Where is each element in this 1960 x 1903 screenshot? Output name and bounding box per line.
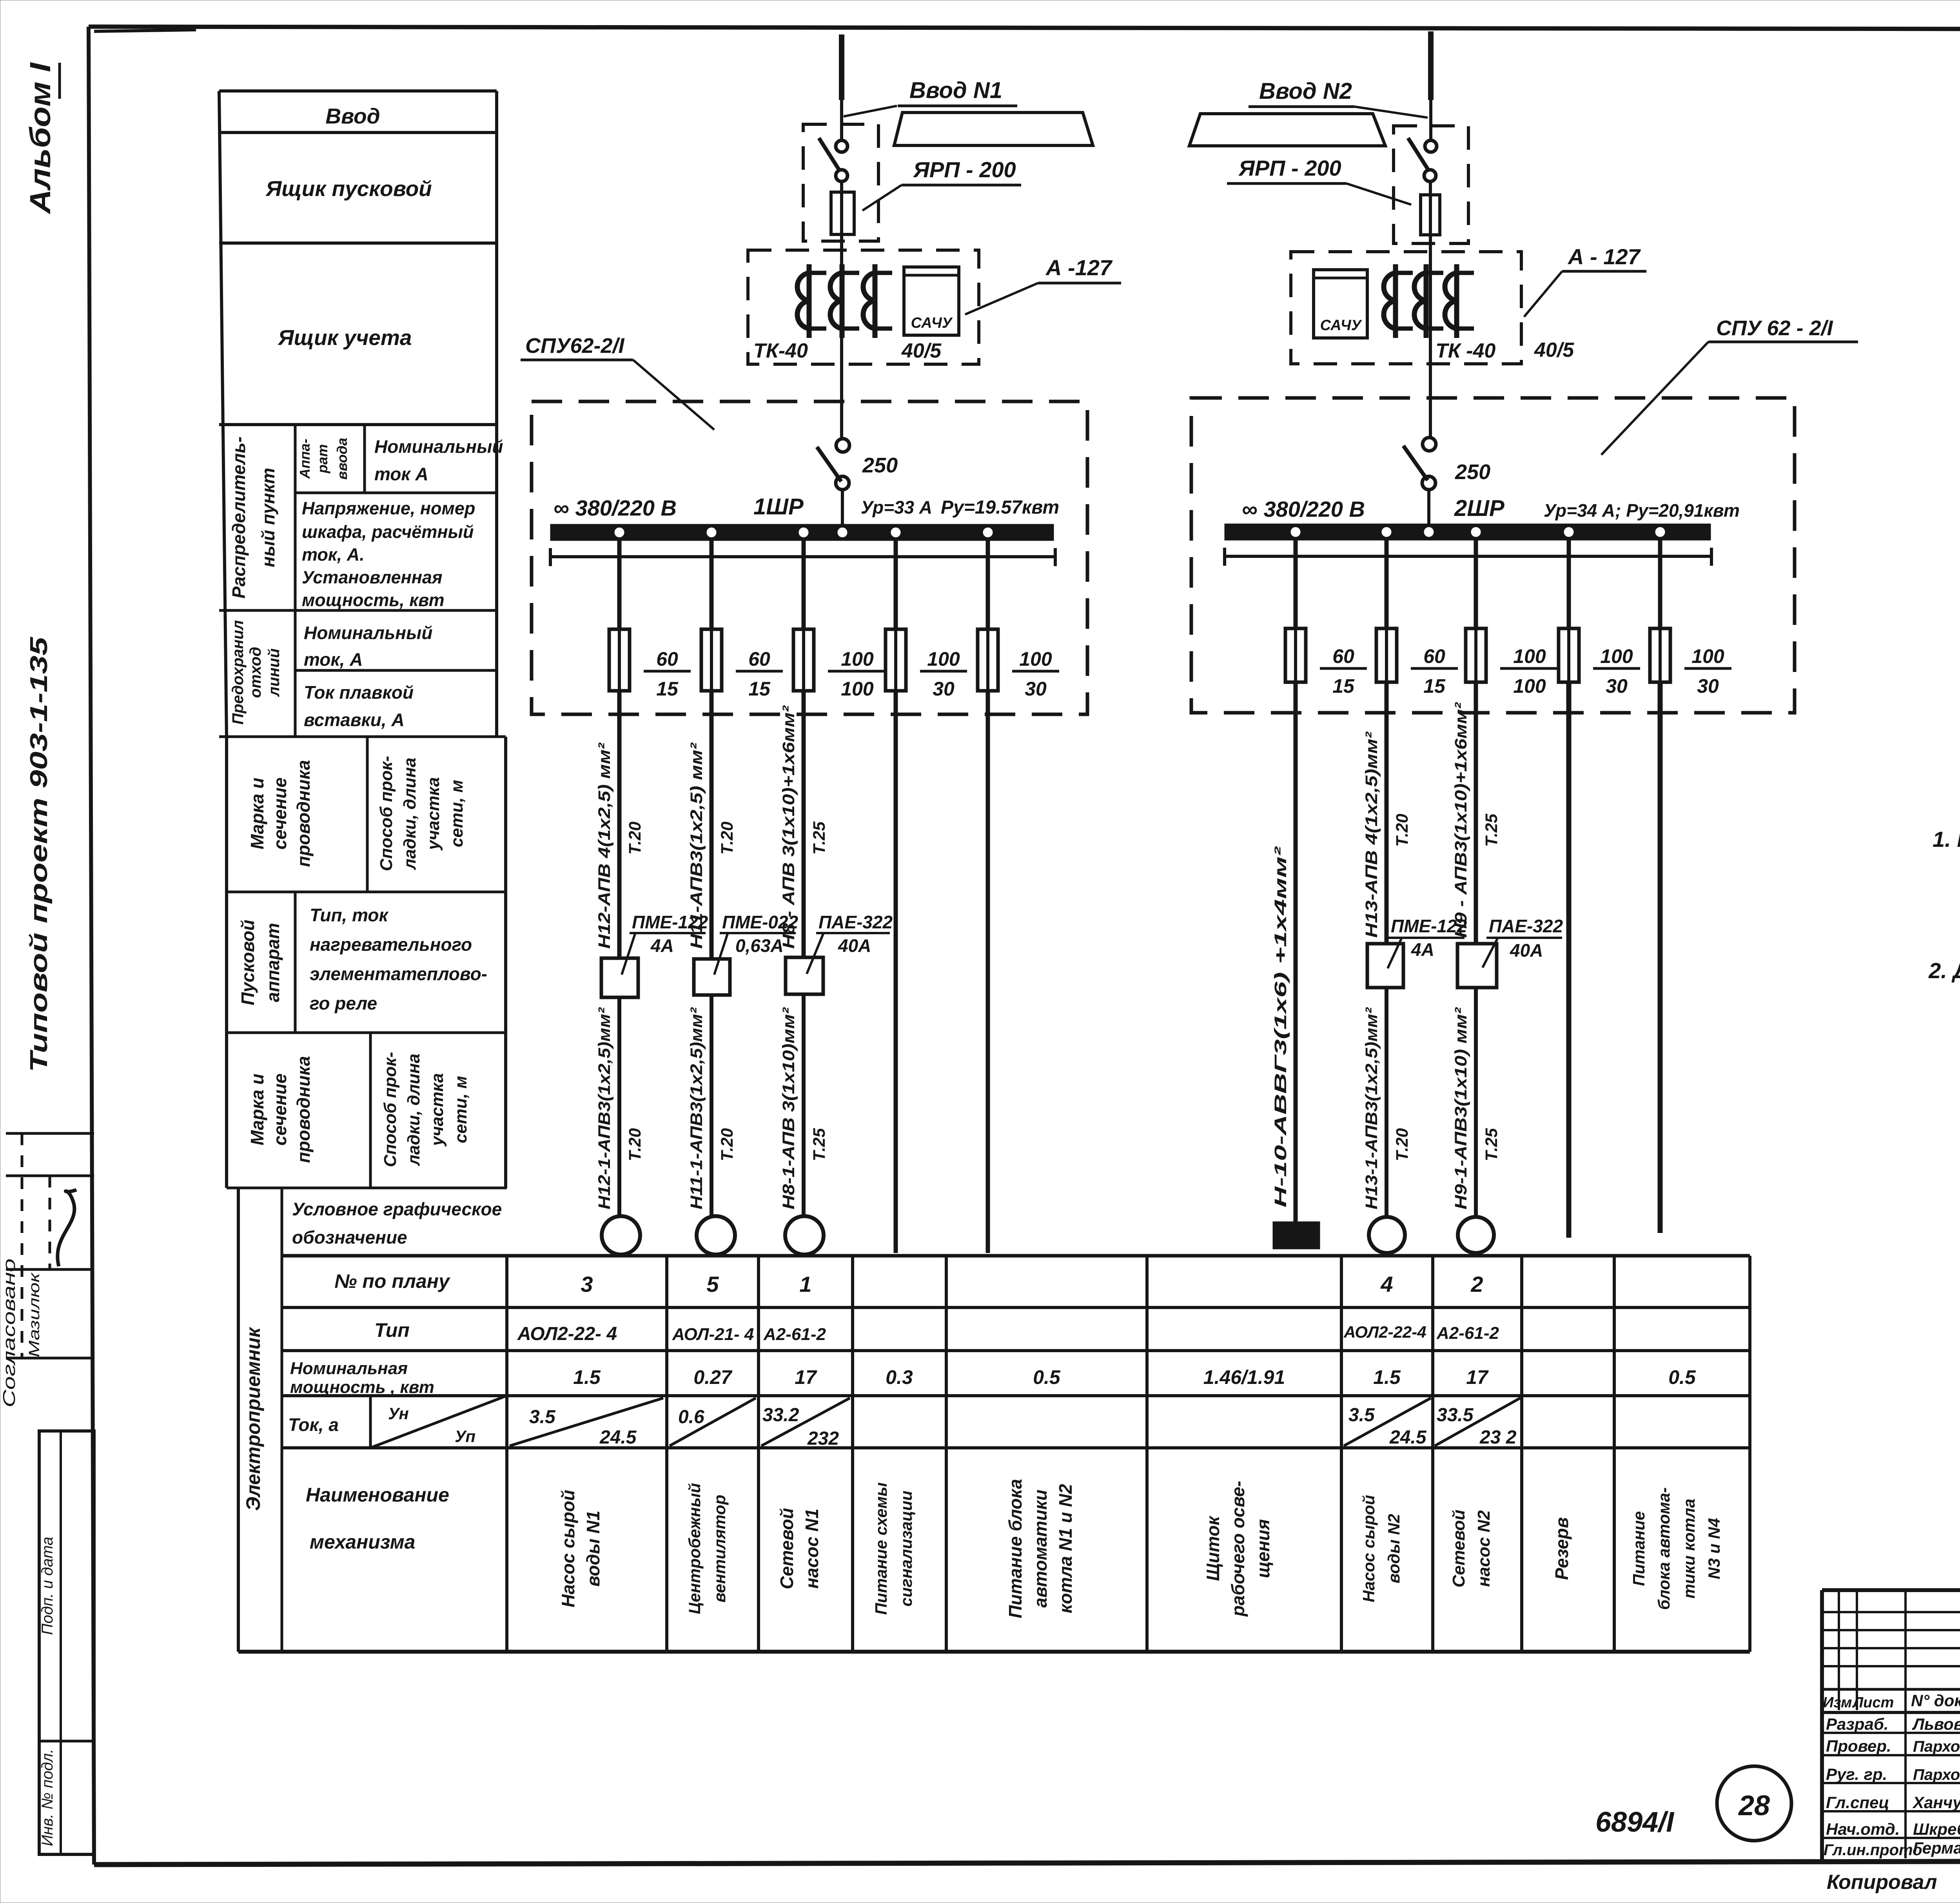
svg-text:Ввод: Ввод xyxy=(325,104,380,128)
svg-text:Подп. и дата: Подп. и дата xyxy=(39,1537,56,1635)
fuse 1ШР group 1 xyxy=(609,629,630,691)
svg-text:ввода: ввода xyxy=(334,438,350,480)
current transformer ТК-40 N2 phase A xyxy=(1384,264,1413,338)
wire 2ШР group 2 starter to motor xyxy=(1385,988,1388,1218)
svg-text:40А: 40А xyxy=(1510,940,1543,961)
label А-127 N2 xyxy=(1524,244,1646,317)
label А-127 N1 xyxy=(965,255,1121,314)
svg-text:Насос сырой: Насос сырой xyxy=(558,1490,578,1607)
svg-text:Н-10-АВВГ3(1х6) +1х4мм²: Н-10-АВВГ3(1х6) +1х4мм² xyxy=(1271,846,1290,1208)
busbar rail 2ШР xyxy=(1225,548,1711,566)
svg-text:24.5: 24.5 xyxy=(599,1427,637,1448)
svg-text:Типовой проект 903-1-135: Типовой проект 903-1-135 xyxy=(25,636,53,1072)
title block: revision header row xyxy=(1823,1691,1960,1711)
svg-text:Уп: Уп xyxy=(455,1427,475,1445)
flag Ввод N1 xyxy=(894,113,1093,145)
wire through А-127 N1 xyxy=(840,250,843,439)
svg-text:АОЛ2-22-4: АОЛ2-22-4 xyxy=(1343,1323,1426,1341)
svg-text:3.5: 3.5 xyxy=(1348,1405,1375,1425)
margin stamp Инв № подл / Подп. и дата (rotated table) xyxy=(39,1431,94,1854)
svg-text:Способ прок-: Способ прок- xyxy=(381,1052,400,1167)
svg-text:щения: щения xyxy=(1253,1519,1273,1578)
metering box А-127 N1 (dashed) xyxy=(748,250,979,364)
svg-text:ный пункт: ный пункт xyxy=(258,468,278,567)
current transformer ТК-40 N1 phase A xyxy=(797,264,826,338)
svg-text:Гл.ин.прото: Гл.ин.прото xyxy=(1824,1841,1922,1859)
svg-text:СПУ62-2/I: СПУ62-2/I xyxy=(525,334,624,358)
svg-text:проводника: проводника xyxy=(293,1056,314,1163)
switch 250 (2ШР) xyxy=(1403,438,1436,527)
wire feeder 2 incoming drop xyxy=(1428,31,1434,140)
wire 2ШР group 5 to table xyxy=(1658,682,1663,1233)
svg-text:1.5: 1.5 xyxy=(573,1366,601,1388)
busbar 2ШР xyxy=(1225,524,1711,540)
frame border left xyxy=(89,27,94,1865)
svg-text:Щиток: Щиток xyxy=(1203,1515,1223,1581)
svg-text:аппарат: аппарат xyxy=(263,923,283,1002)
svg-text:100: 100 xyxy=(1600,645,1633,667)
svg-text:40А: 40А xyxy=(838,935,871,956)
svg-text:Т.20: Т.20 xyxy=(718,822,737,855)
svg-text:Электроприемник: Электроприемник xyxy=(242,1327,264,1511)
header table rows 1-3 (Ввод / Ящик пусковой / Ящик учета) xyxy=(219,91,497,737)
svg-text:Т.20: Т.20 xyxy=(1393,1128,1412,1161)
svg-text:ЯРП - 200: ЯРП - 200 xyxy=(1238,156,1341,180)
svg-text:3.5: 3.5 xyxy=(529,1407,556,1427)
fuse F0-1 in ЯРП xyxy=(831,182,854,250)
svg-text:60: 60 xyxy=(1332,645,1354,667)
starter ПМЕ-122 (2ШР group 2) xyxy=(1367,944,1403,988)
svg-text:3: 3 xyxy=(581,1272,593,1297)
current transformer ТК-40 N2 phase C xyxy=(1445,264,1474,338)
svg-text:30: 30 xyxy=(933,678,955,700)
svg-text:6894/I: 6894/I xyxy=(1595,1807,1675,1838)
svg-text:автоматики: автоматики xyxy=(1030,1489,1051,1607)
header table row 8 Марка и сечение / Способ прокладки (2) xyxy=(227,1033,507,1188)
starter ПМЕ-122 (group 1) xyxy=(601,958,638,997)
svg-text:Т.20: Т.20 xyxy=(718,1128,737,1161)
svg-text:мощность, квт: мощность, квт xyxy=(302,590,445,610)
svg-text:ток А: ток А xyxy=(374,464,428,484)
svg-text:САЧУ: САЧУ xyxy=(1320,317,1363,334)
label Ввод N2 xyxy=(1249,78,1428,118)
starter ПАЕ-322 (group 3) xyxy=(786,957,823,994)
svg-text:15: 15 xyxy=(1423,675,1446,697)
svg-text:Тип: Тип xyxy=(374,1319,410,1341)
svg-text:сети, м: сети, м xyxy=(451,1076,470,1143)
svg-text:1.5: 1.5 xyxy=(1373,1366,1401,1388)
svg-text:вентилятор: вентилятор xyxy=(710,1494,729,1602)
svg-text:Герман: Герман xyxy=(1913,1839,1960,1857)
svg-text:Питание блока: Питание блока xyxy=(1005,1479,1025,1618)
wire 1ШР group 4 to table xyxy=(894,691,898,1253)
svg-text:Разраб.: Разраб. xyxy=(1826,1715,1889,1733)
svg-text:Т.25: Т.25 xyxy=(810,821,829,855)
svg-text:Предохранил: Предохранил xyxy=(229,620,247,725)
svg-text:15: 15 xyxy=(1332,675,1355,697)
svg-text:Н13-1-АПВ3(1х2,5)мм²: Н13-1-АПВ3(1х2,5)мм² xyxy=(1362,1007,1381,1209)
fuse 1ШР group 5 xyxy=(978,629,998,691)
meter САЧУ N1 xyxy=(904,267,959,335)
svg-text:2: 2 xyxy=(1470,1272,1483,1297)
wire 1ШР group 2 drop xyxy=(710,541,714,629)
stamp circle 28 xyxy=(1717,1766,1791,1841)
svg-text:сигнализации: сигнализации xyxy=(897,1491,915,1607)
data table grid xyxy=(238,1256,1750,1652)
motor M2 (сетевой насос N2) xyxy=(1458,1217,1494,1253)
svg-text:1ШР: 1ШР xyxy=(753,494,804,519)
svg-text:Изм: Изм xyxy=(1823,1694,1852,1711)
wire 2ШР group 4 drop xyxy=(1567,540,1571,628)
svg-text:Ханчук: Ханчук xyxy=(1912,1793,1960,1812)
wire 2ШР group 2 to starter xyxy=(1385,682,1389,944)
svg-text:ток, А: ток, А xyxy=(304,649,363,670)
svg-text:30: 30 xyxy=(1606,675,1628,697)
svg-text:Пусковой: Пусковой xyxy=(238,920,258,1006)
svg-text:2ШР: 2ШР xyxy=(1454,496,1504,521)
wire 2ШР group 4 to table xyxy=(1566,682,1572,1238)
wire 1ШР group 1 starter to motor xyxy=(617,997,621,1216)
svg-text:Ток плавкой: Ток плавкой xyxy=(304,682,414,703)
svg-text:шкафа, расчётный: шкафа, расчётный xyxy=(302,522,474,542)
svg-text:4А: 4А xyxy=(1411,939,1434,960)
svg-text:сечение: сечение xyxy=(270,1073,290,1146)
svg-text:17: 17 xyxy=(795,1366,817,1388)
svg-text:60: 60 xyxy=(748,648,770,670)
svg-text:мощность , квт: мощность , квт xyxy=(290,1378,434,1397)
svg-text:Марка и: Марка и xyxy=(247,778,267,850)
metering box А-127 N2 (dashed) xyxy=(1291,252,1521,364)
svg-text:ток, А.: ток, А. xyxy=(302,545,365,565)
svg-text:воды N2: воды N2 xyxy=(1385,1514,1403,1583)
svg-text:участка: участка xyxy=(424,777,443,851)
wire 1ШР group 5 drop xyxy=(986,541,990,629)
svg-text:Наименование: Наименование xyxy=(306,1484,449,1506)
svg-text:Руг. гр.: Руг. гр. xyxy=(1826,1765,1887,1783)
svg-text:САЧУ: САЧУ xyxy=(911,315,953,331)
fuse rating 100/30 (2ШР) xyxy=(1593,645,1640,697)
fuse 2ШР group 1 xyxy=(1285,628,1306,682)
svg-text:100: 100 xyxy=(1691,645,1724,667)
title block grid xyxy=(1822,1590,1960,1860)
svg-text:Н9 - АПВ3(1х10)+1х6мм²: Н9 - АПВ3(1х10)+1х6мм² xyxy=(1452,702,1470,938)
svg-text:250: 250 xyxy=(1455,460,1490,484)
svg-text:1.46/1.91: 1.46/1.91 xyxy=(1203,1366,1285,1388)
svg-text:1. Марка и сечение питающих: 1. Марка и сечение питающих xyxy=(1933,827,1960,852)
label ПМЕ-122 4А xyxy=(622,912,708,975)
header table row 5 Предохранит. отход линий xyxy=(219,620,506,737)
svg-text:Условное графическое: Условное графическое xyxy=(292,1199,502,1219)
title block: staff rows xyxy=(1824,1715,1960,1859)
svg-text:Напряжение, номер: Напряжение, номер xyxy=(302,498,475,518)
svg-text:№ по плану: № по плану xyxy=(334,1270,450,1292)
switch box ЯРП-200 N1 (dashed) xyxy=(803,124,878,241)
svg-text:40/5: 40/5 xyxy=(1534,339,1574,361)
svg-text:40/5: 40/5 xyxy=(901,340,942,362)
frame border top xyxy=(89,27,1960,30)
svg-text:сети, м: сети, м xyxy=(447,780,466,847)
notes Примечание xyxy=(1928,779,1960,1030)
svg-text:блока автома-: блока автома- xyxy=(1655,1487,1673,1610)
svg-text:ЯРП - 200: ЯРП - 200 xyxy=(913,157,1016,182)
svg-text:15: 15 xyxy=(656,678,679,700)
data row Номинальная мощность xyxy=(573,1366,1696,1388)
svg-text:24.5: 24.5 xyxy=(1389,1427,1427,1448)
svg-text:Тип, ток: Тип, ток xyxy=(310,905,389,925)
svg-text:сечение: сечение xyxy=(270,777,290,850)
starter ПАЕ-322 (2ШР group 3) xyxy=(1457,944,1497,988)
svg-text:0.3: 0.3 xyxy=(886,1366,913,1388)
label СПУ62-2/I (1ШР) xyxy=(521,334,714,430)
svg-text:АОЛ2-22- 4: АОЛ2-22- 4 xyxy=(517,1324,617,1344)
current transformer ТК-40 N1 phase C xyxy=(863,264,892,338)
flag Ввод N2 xyxy=(1189,114,1385,146)
svg-text:проводника: проводника xyxy=(293,760,314,867)
motor M5 (центробежный вентилятор) xyxy=(697,1216,735,1255)
svg-text:Ввод N1: Ввод N1 xyxy=(909,78,1002,103)
svg-text:Пархомовский: Пархомовский xyxy=(1913,1738,1960,1755)
svg-text:Номинальный: Номинальный xyxy=(304,623,432,643)
svg-text:Т.20: Т.20 xyxy=(626,1128,644,1161)
svg-text:0.6: 0.6 xyxy=(678,1407,704,1427)
wire 1ШР group 5 to table xyxy=(986,691,990,1253)
wire 1ШР group 1 drop xyxy=(617,541,622,629)
starter ПМЕ-022 (group 2) xyxy=(694,959,730,995)
wire through А-127 N2 xyxy=(1429,252,1432,438)
margin stamp Согласовано (rotated table) xyxy=(0,1133,94,1407)
wire 2ШР group 5 drop xyxy=(1658,540,1662,628)
svg-text:Н8 - АПВ 3(1х10)+1х6мм²: Н8 - АПВ 3(1х10)+1х6мм² xyxy=(779,705,798,949)
header table row 4 Распределительный пункт xyxy=(219,425,503,737)
svg-text:Т.25: Т.25 xyxy=(1482,813,1501,847)
svg-text:А -127: А -127 xyxy=(1045,255,1113,280)
svg-text:0,63А: 0,63А xyxy=(735,935,784,956)
svg-text:Ур=33 А: Ур=33 А xyxy=(861,497,932,518)
fuse 2ШР group 3 xyxy=(1466,628,1486,682)
svg-text:Согласовано: Согласовано xyxy=(0,1258,19,1407)
svg-text:насос N2: насос N2 xyxy=(1474,1510,1494,1587)
wire 2ШР group 3 to starter xyxy=(1474,682,1478,944)
label СПУ 62-2/I (2ШР) xyxy=(1601,316,1858,455)
svg-text:котла N1 и N2: котла N1 и N2 xyxy=(1055,1484,1076,1613)
svg-text:15: 15 xyxy=(748,678,771,700)
svg-text:ПАЕ-322: ПАЕ-322 xyxy=(1489,916,1563,936)
frame border bottom xyxy=(94,1860,1960,1865)
lighting panel Щиток (black box) xyxy=(1273,1222,1320,1249)
svg-text:рабочего осве-: рабочего осве- xyxy=(1228,1481,1248,1617)
data row Тип xyxy=(517,1323,1499,1344)
svg-text:механизма: механизма xyxy=(310,1531,415,1553)
svg-text:Альбом I: Альбом I xyxy=(24,62,56,214)
svg-text:5: 5 xyxy=(706,1272,719,1297)
svg-text:Ур=34 А; Ру=20,91квт: Ур=34 А; Ру=20,91квт xyxy=(1544,500,1740,521)
wire 1ШР group 1 to starter xyxy=(617,691,622,958)
svg-text:Резерв: Резерв xyxy=(1552,1517,1572,1580)
svg-text:участка: участка xyxy=(428,1073,447,1147)
svg-text:Питание: Питание xyxy=(1630,1511,1648,1586)
svg-text:ТК -40: ТК -40 xyxy=(1436,340,1495,362)
wire 1ШР group 3 drop xyxy=(802,541,806,629)
svg-text:250: 250 xyxy=(862,454,898,477)
svg-text:0.5: 0.5 xyxy=(1033,1366,1061,1388)
svg-text:ладки, длина: ладки, длина xyxy=(404,1053,423,1166)
svg-text:Пархомовский: Пархомовский xyxy=(1913,1766,1960,1783)
svg-text:Нач.отд.: Нач.отд. xyxy=(1826,1820,1900,1838)
label ПМЕ-122 4А (2ШР) xyxy=(1388,916,1467,968)
svg-text:нагревательного: нагревательного xyxy=(310,934,472,955)
meter САЧУ N2 xyxy=(1314,270,1367,338)
svg-text:го реле: го реле xyxy=(310,993,377,1013)
fuse rating 100/30 (2ШР) xyxy=(1684,645,1731,697)
svg-text:Ящик учета: Ящик учета xyxy=(277,325,412,350)
label ПАЕ-322 40А (2ШР) xyxy=(1483,916,1563,968)
svg-text:∞ 380/220 В: ∞ 380/220 В xyxy=(554,496,677,520)
disconnect switch Q1 xyxy=(819,138,848,182)
svg-text:Ящик пусковой: Ящик пусковой xyxy=(265,176,432,201)
svg-text:23 2: 23 2 xyxy=(1479,1427,1517,1448)
svg-text:4: 4 xyxy=(1380,1272,1393,1297)
wire 2ШР group 2 drop xyxy=(1385,540,1389,628)
svg-text:Н12-АПВ 4(1х2,5) мм²: Н12-АПВ 4(1х2,5) мм² xyxy=(595,742,614,949)
motor M1s (сетевой насос N1) xyxy=(785,1216,824,1255)
svg-text:Установленная: Установленная xyxy=(302,567,442,587)
svg-text:СПУ 62 - 2/I: СПУ 62 - 2/I xyxy=(1716,316,1833,340)
svg-text:рат: рат xyxy=(314,444,330,474)
label ПАЕ-322 40А xyxy=(807,912,893,974)
wire 2ШР group 1 to щиток xyxy=(1294,682,1298,1222)
cabinet 2ШР (dashed box) xyxy=(1191,398,1795,713)
wire 1ШР group 3 starter to motor xyxy=(802,994,806,1216)
data row № по плану xyxy=(581,1272,1483,1297)
svg-text:100: 100 xyxy=(841,678,874,700)
fuse F0-2 in ЯРП xyxy=(1421,182,1440,252)
fuse rating 60/15 xyxy=(644,648,691,700)
fuse 1ШР group 4 xyxy=(886,629,906,691)
svg-text:тики котла: тики котла xyxy=(1680,1499,1698,1599)
svg-text:Н11-1-АПВ3(1х2,5)мм²: Н11-1-АПВ3(1х2,5)мм² xyxy=(687,1007,706,1209)
svg-text:Номинальный: Номинальный xyxy=(374,436,503,457)
svg-text:232: 232 xyxy=(807,1428,839,1449)
svg-text:элементатеплово-: элементатеплово- xyxy=(310,964,487,984)
svg-text:Инв. № подл.: Инв. № подл. xyxy=(39,1749,56,1846)
svg-text:Аппа-: Аппа- xyxy=(297,439,313,479)
svg-text:обозначение: обозначение xyxy=(292,1227,407,1247)
svg-text:∞ 380/220 В: ∞ 380/220 В xyxy=(1242,497,1365,521)
svg-text:Гл.спец: Гл.спец xyxy=(1826,1793,1889,1812)
header table row 7 Пусковой аппарат xyxy=(227,892,506,1033)
svg-text:Центробежный: Центробежный xyxy=(685,1483,704,1614)
svg-text:Сетевой: Сетевой xyxy=(1449,1510,1468,1588)
svg-text:Марка и: Марка и xyxy=(247,1074,267,1146)
data row Наименование механизма (rotated names) xyxy=(558,1479,1723,1618)
svg-text:Питание схемы: Питание схемы xyxy=(872,1482,890,1615)
svg-text:Ввод N2: Ввод N2 xyxy=(1259,78,1352,104)
busbar rail 1ШР xyxy=(550,548,1055,566)
svg-text:60: 60 xyxy=(1423,645,1445,667)
svg-text:А2-61-2: А2-61-2 xyxy=(1436,1324,1499,1343)
fuse 2ШР group 4 xyxy=(1559,628,1579,682)
cabinet 1ШР (dashed box) xyxy=(532,401,1087,714)
svg-text:линий: линий xyxy=(265,648,283,697)
fuse 2ШР group 5 xyxy=(1650,628,1670,682)
wire 2ШР group 3 starter to motor xyxy=(1474,988,1478,1218)
wire 1ШР group 4 drop xyxy=(894,541,898,629)
svg-text:отход: отход xyxy=(247,647,264,698)
svg-text:100: 100 xyxy=(841,648,874,670)
svg-text:Н13-АПВ 4(1х2,5)мм²: Н13-АПВ 4(1х2,5)мм² xyxy=(1362,731,1381,938)
svg-text:60: 60 xyxy=(656,648,678,670)
fuse rating 100/30 xyxy=(1012,648,1059,700)
disconnect switch Q2 xyxy=(1408,138,1437,182)
svg-text:Мазилюк: Мазилюк xyxy=(26,1272,43,1357)
svg-text:17: 17 xyxy=(1466,1366,1489,1388)
svg-text:Копировал: Копировал xyxy=(1827,1871,1937,1894)
svg-text:N3 и N4: N3 и N4 xyxy=(1705,1518,1723,1579)
label ЯРП-200 N2 xyxy=(1227,156,1411,205)
svg-text:А - 127: А - 127 xyxy=(1567,244,1641,269)
switch box ЯРП-200 N2 (dashed) xyxy=(1394,126,1468,243)
svg-text:вставки, А: вставки, А xyxy=(304,710,405,730)
header table row 9 Электроприемник block xyxy=(238,1188,507,1652)
header table row 6 Марка и сечение / Способ прокладки xyxy=(227,737,506,1188)
wire 1ШР group 2 starter to motor xyxy=(710,995,713,1216)
svg-text:30: 30 xyxy=(1025,678,1047,700)
wire feeder 1 incoming drop xyxy=(839,35,844,140)
fuse 2ШР group 2 xyxy=(1376,628,1397,682)
data row Ток, а with diagonals xyxy=(510,1398,1520,1449)
svg-text:Ру=19.57квт: Ру=19.57квт xyxy=(941,497,1059,518)
current transformer ТК-40 N2 phase B xyxy=(1414,264,1443,338)
svg-text:100: 100 xyxy=(927,648,960,670)
svg-text:4А: 4А xyxy=(650,935,674,956)
svg-text:Т.20: Т.20 xyxy=(1393,814,1412,847)
svg-text:100: 100 xyxy=(1513,675,1546,697)
svg-text:Шкребко: Шкребко xyxy=(1913,1820,1960,1838)
svg-text:Способ прок-: Способ прок- xyxy=(377,756,396,871)
svg-text:насос N1: насос N1 xyxy=(802,1509,822,1589)
svg-text:ладки, длина: ладки, длина xyxy=(400,757,419,870)
fuse rating 60/15 xyxy=(736,648,783,700)
svg-text:0.27: 0.27 xyxy=(693,1366,733,1388)
fuse rating 60/15 (2ШР) xyxy=(1411,645,1458,697)
svg-text:Львова: Львова xyxy=(1912,1715,1960,1733)
svg-text:28: 28 xyxy=(1738,1790,1770,1821)
fuse rating 100/100 xyxy=(828,648,887,700)
svg-text:33.5: 33.5 xyxy=(1437,1405,1474,1425)
svg-text:Н8-1-АПВ 3(1х10)мм²: Н8-1-АПВ 3(1х10)мм² xyxy=(779,1007,798,1209)
svg-text:Н12-1-АПВ3(1х2,5)мм²: Н12-1-АПВ3(1х2,5)мм² xyxy=(595,1007,614,1209)
svg-text:воды N1: воды N1 xyxy=(583,1511,603,1587)
motor M4 (насос сырой воды N2) xyxy=(1369,1217,1405,1253)
busbar 1ШР xyxy=(550,524,1054,541)
wire 2ШР group 1 drop xyxy=(1294,540,1298,628)
svg-text:Н11-АПВ3(1х2,5) мм²: Н11-АПВ3(1х2,5) мм² xyxy=(687,742,706,949)
wire 1ШР group 3 to starter xyxy=(802,691,806,957)
motor M1 (насос сырой воды N1) xyxy=(602,1216,640,1255)
switch 250 (1ШР) xyxy=(817,439,849,528)
svg-text:2. Для котельных с 2-мя ка: 2. Для котельных с 2-мя катлами xyxy=(1928,958,1960,983)
svg-text:100: 100 xyxy=(1513,645,1546,667)
svg-text:Распределитель-: Распределитель- xyxy=(229,436,249,598)
svg-text:30: 30 xyxy=(1697,675,1719,697)
svg-text:33.2: 33.2 xyxy=(762,1405,799,1425)
svg-text:Т.25: Т.25 xyxy=(1482,1128,1501,1161)
label Ввод N1 xyxy=(844,78,1017,116)
svg-text:АОЛ-21- 4: АОЛ-21- 4 xyxy=(672,1325,754,1344)
svg-text:Т.20: Т.20 xyxy=(626,822,644,855)
svg-text:Номинальная: Номинальная xyxy=(290,1359,408,1378)
svg-text:1: 1 xyxy=(799,1272,811,1297)
